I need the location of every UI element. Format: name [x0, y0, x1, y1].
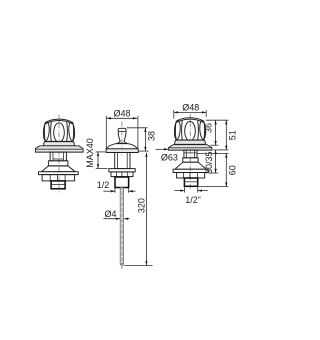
svg-text:MAX40: MAX40: [85, 138, 95, 168]
svg-text:36: 36: [204, 123, 214, 133]
svg-text:Ø48: Ø48: [182, 102, 199, 112]
svg-text:Ø48: Ø48: [113, 108, 130, 118]
svg-text:30/35: 30/35: [204, 151, 214, 174]
svg-text:38: 38: [146, 131, 156, 141]
svg-text:320: 320: [136, 198, 146, 213]
svg-text:60: 60: [228, 165, 238, 175]
svg-text:51: 51: [228, 130, 238, 140]
svg-text:1/2: 1/2: [97, 180, 110, 190]
svg-text:1/2”: 1/2”: [185, 195, 201, 205]
svg-text:Ø4: Ø4: [104, 209, 116, 219]
svg-text:Ø63: Ø63: [161, 152, 178, 162]
